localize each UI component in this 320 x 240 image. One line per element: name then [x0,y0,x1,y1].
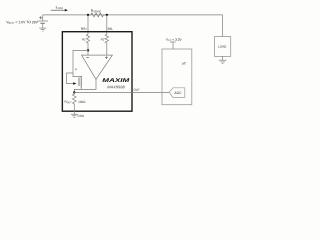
ILOAD arrow [51,9,65,11]
wire gate bracket [67,73,74,84]
wire top rail [43,14,223,16]
wire RS+ drop [87,15,89,34]
svg-text:µC: µC [182,61,187,65]
wire feedback to PMOS source [73,50,88,76]
resistor RSENSE [88,13,107,17]
node RS+ junction [87,14,89,16]
resistor R2 [105,34,108,55]
svg-text:LOAD: LOAD [218,45,227,49]
node RS- junction [106,14,108,16]
svg-text:VBATT = 1.6V TO 28V: VBATT = 1.6V TO 28V [6,20,38,25]
svg-text:ADC: ADC [174,91,182,95]
svg-text:R1: R1 [82,37,86,41]
node A (R1 / amp inverting input / feedback) [87,49,89,51]
ADC input tag [169,88,185,98]
op-amp U1 [82,55,113,79]
wire OUT line [74,92,169,94]
svg-text:MAXIM: MAXIM [102,78,130,84]
ground (load) [219,56,227,63]
svg-text:RS+: RS+ [81,27,87,31]
gate arrowhead [73,82,76,85]
battery V_BATT [37,15,48,28]
svg-text:RS-: RS- [108,27,114,31]
ground (GND pin) [71,111,78,117]
node OUT junction [73,91,75,93]
wire op-amp output / drain to OUT node [74,79,96,92]
power tap VCC [170,42,176,49]
op-amp minus sign [86,57,89,59]
svg-text:MAX9938: MAX9938 [107,85,126,89]
wire RS- drop [106,15,108,34]
svg-text:P: P [75,68,77,72]
wire node A to op-amp input [87,50,89,55]
svg-text:R2: R2 [101,37,105,41]
svg-text:ILOAD: ILOAD [56,5,64,10]
ground (battery) [39,28,46,31]
resistor ROUT 10k [73,93,77,112]
resistor R1 [86,34,89,50]
load box [215,37,231,57]
microcontroller box [162,49,192,105]
svg-text:10kΩ: 10kΩ [78,100,86,104]
svg-text:OUT: OUT [133,88,140,92]
IC box MAX9938 [62,32,132,112]
battery plus sign [39,16,42,19]
op-amp plus sign [105,56,108,59]
transistor Q1 PMOS [79,76,81,88]
wire rail to load [222,15,224,37]
wire drain drop [80,88,82,90]
svg-text:GND: GND [78,114,86,118]
